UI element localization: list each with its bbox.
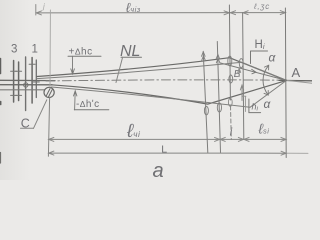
upper ray U1 (37, 58, 287, 81)
top dim arrow right end (280, 11, 285, 15)
vertical extension x=242.6 (243, 13, 244, 140)
collimator circle C (44, 87, 54, 97)
svg-text:-Δhʹc: -Δhʹc (76, 99, 99, 110)
lens tick marks (11, 70, 17, 72)
top dim arrow at x=242.7 pointing left (243, 11, 248, 15)
bottom dimension line 1 (48, 138, 286, 140)
dashed lower part (i line) (230, 106, 233, 140)
hi up arrow (240, 85, 243, 101)
pupil ellipse B (229, 75, 233, 83)
vertical extension x=203-207 (203, 52, 208, 153)
underline of +Dhc (68, 55, 101, 57)
small stop circle on axis (24, 83, 28, 87)
arc arrowhead top (264, 65, 268, 70)
lower ray L1 (52, 80, 287, 104)
vertical extension x=50 lower (48, 98, 49, 157)
svg-text:L: L (161, 143, 167, 155)
top dimension line l413 (36, 12, 286, 14)
top dim arrow at x=229.8 from right (230, 11, 235, 15)
top dim arrow at x=229.8 from left (224, 11, 230, 15)
ellipse on 220 line (217, 103, 221, 112)
svg-text:1: 1 (32, 44, 38, 56)
svg-text:α: α (269, 51, 277, 65)
svg-text:ℓ,ʒс: ℓ,ʒс (253, 2, 270, 11)
up arrow near B (238, 68, 241, 77)
vertical extension x=217-220 (217, 42, 220, 153)
svg-text:A: A (292, 65, 301, 80)
entering ray y=85 (0, 84, 52, 86)
lower small ellipse on 231 (228, 98, 232, 106)
NL leader (116, 57, 123, 82)
lower ray L2 (52, 80, 287, 107)
angle arc at A (263, 65, 269, 95)
faint line from A down right (287, 80, 313, 83)
left bar arrow of -Dh'c pointing up to ray (74, 91, 77, 110)
underline of -Dh'c (74, 109, 109, 111)
arrow leg of +Dhc pointing down to ray (71, 56, 75, 74)
underline NL (121, 56, 142, 58)
svg-text:3: 3 (11, 44, 17, 56)
lens 3 line b (18, 62, 20, 101)
top dim arrow left end (36, 11, 41, 15)
tick joining 242/245 (242, 95, 246, 97)
ellipse on 229.8 line top (228, 56, 232, 66)
upper converging ray U3 (220, 63, 287, 81)
arrowhead on converging ray (252, 69, 256, 74)
ellipse on 203 line (204, 106, 208, 115)
short double vertical near 245 (244, 97, 246, 112)
vertical extension x=286 (284, 8, 287, 158)
optical axis dash-dot (46, 80, 285, 81)
entering ray y=90 (0, 89, 45, 91)
up arrow on x=217 (216, 55, 220, 63)
arrows on line 1 (49, 137, 54, 141)
axis after A (dark) (279, 79, 312, 81)
svg-text:j: j (42, 2, 45, 11)
hatch inside circle (46, 89, 50, 96)
vertical extension x=50 upper (faint) (49, 10, 51, 87)
lens middle long line (25, 57, 27, 111)
svg-text:α: α (264, 97, 272, 111)
vertical extension x=229.8 (229, 5, 230, 100)
lens 3 line a (13, 61, 15, 103)
ellipse on 242.6 (239, 59, 243, 68)
paper background (0, 0, 312, 180)
svg-text:a: a (153, 160, 164, 180)
arc arrowhead bottom (264, 90, 268, 95)
top-left extension tick (35, 5, 37, 16)
upper ray U2 (37, 62, 287, 80)
leader from C label to circle (34, 100, 47, 129)
faint continuation of line 2 (286, 152, 308, 154)
svg-text:C: C (21, 117, 30, 131)
left edge scan artifacts (0, 59, 2, 74)
entering ray y=80 (0, 79, 55, 81)
lens 1 line a (31, 58, 33, 104)
bottom dimension line 2 (L) (48, 152, 286, 154)
up arrow on x=203 (202, 52, 206, 61)
lens 1 line b (35, 60, 37, 98)
C underline (21, 127, 34, 129)
